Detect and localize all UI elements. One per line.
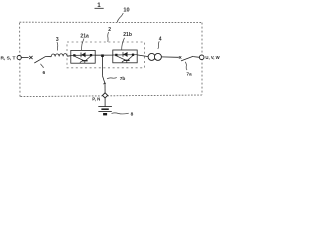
21a node right (90, 54, 92, 56)
switch 7a blade (181, 56, 193, 61)
contact tick 7b (103, 83, 106, 84)
label 7b (107, 76, 125, 82)
wire terminal to battery (104, 98, 106, 106)
contact tick 7a (179, 56, 181, 58)
label 7a (185, 62, 192, 78)
wire to output terminal (193, 56, 199, 59)
figure number 1 (95, 2, 104, 9)
wire 21b to transformer (137, 55, 148, 57)
inner dashed box 2 (67, 42, 145, 68)
svg-text:P, N: P, N (92, 97, 100, 103)
vertical wire from junction (102, 57, 104, 76)
label 21b (122, 32, 132, 50)
21b diode (123, 52, 127, 57)
21a diode (81, 53, 85, 58)
21a transistor pair (74, 56, 91, 63)
terminal P,N (diamond) (103, 93, 108, 98)
svg-text:6: 6 (42, 70, 45, 76)
label 4 (158, 36, 162, 49)
21a node left (73, 54, 75, 56)
wire inductor to box 21a (67, 55, 71, 58)
switch 7b blade (103, 76, 105, 83)
outer dashed box 10 (20, 22, 202, 96)
wire terminal to contact (21, 57, 28, 59)
wire 21a to 21b (95, 54, 113, 56)
wire switch to inductor (46, 55, 51, 57)
svg-text:U, V, W: U, V, W (205, 55, 220, 61)
contact X (29, 56, 32, 59)
21b transistor pair (116, 56, 133, 63)
21b interior wire (113, 54, 137, 56)
inductor 3 (51, 54, 67, 57)
label 6 (41, 64, 46, 76)
svg-text:21a: 21a (80, 33, 89, 39)
21b node left (115, 54, 117, 56)
battery 8 (98, 107, 112, 115)
output terminal (199, 55, 204, 60)
transformer 4 (148, 53, 161, 60)
21b node right (132, 54, 134, 56)
switch box 21b (113, 50, 137, 63)
svg-text:7b: 7b (120, 76, 126, 82)
svg-text:8: 8 (131, 111, 134, 117)
switch box 21a (71, 50, 95, 63)
svg-text:7a: 7a (186, 72, 192, 78)
label 10 (117, 8, 129, 22)
label 8 (112, 111, 134, 117)
input terminal (17, 56, 21, 60)
wire 7b to terminal P,N (104, 84, 106, 94)
svg-text:10: 10 (123, 8, 129, 14)
svg-text:21b: 21b (123, 32, 132, 38)
switch 6 blade (34, 56, 46, 63)
svg-text:R, S, T: R, S, T (1, 55, 16, 61)
label 2 (108, 27, 112, 42)
21a interior wire (71, 54, 95, 56)
wire transformer to switch 7a (161, 56, 178, 58)
junction node (101, 54, 104, 57)
label 21a (80, 33, 89, 50)
label 3 (56, 37, 59, 51)
